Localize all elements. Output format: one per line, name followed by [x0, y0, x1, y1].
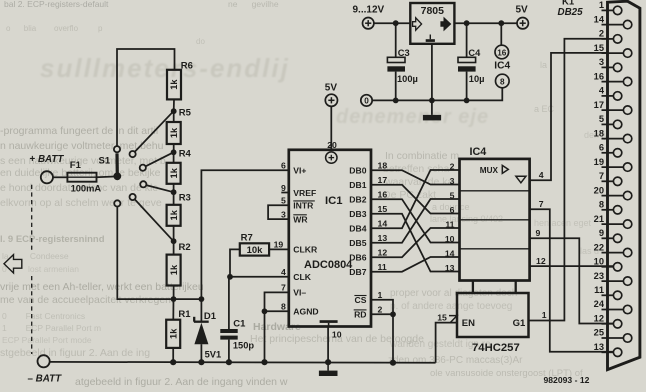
- svg-text:– BATT: – BATT: [28, 374, 63, 385]
- wire contact2 to R6/R5 node: [135, 111, 174, 152]
- wire R1 top: [172, 299, 174, 320]
- svg-text:25: 25: [594, 328, 604, 338]
- svg-text:16: 16: [378, 189, 388, 199]
- connector pin 11: [594, 285, 622, 299]
- svg-text:1k: 1k: [169, 167, 179, 178]
- wire pin8 to 0V rail: [372, 88, 502, 101]
- svg-text:20: 20: [594, 185, 604, 195]
- junction D1/ground bus: [198, 359, 204, 365]
- terminal 5V sub: [325, 94, 337, 106]
- S1 contact 3: [140, 165, 146, 171]
- svg-text:17: 17: [378, 175, 388, 185]
- wire EN pin 15 to ground: [436, 323, 457, 363]
- svg-text:9...12V: 9...12V: [353, 5, 385, 16]
- svg-text:982093 - 12: 982093 - 12: [544, 375, 590, 385]
- terminal +BATT: [41, 171, 53, 183]
- connector pin 5: [599, 114, 622, 129]
- svg-text:7: 7: [281, 283, 286, 293]
- wire IC4 pin 1 (G1) to DB25 pin 2: [529, 39, 608, 321]
- svg-text:MUX: MUX: [480, 166, 499, 175]
- connector pin 20: [594, 185, 632, 200]
- zener diode D1 5V1: [194, 299, 221, 362]
- connector pin 2: [599, 29, 622, 44]
- svg-text:9: 9: [536, 228, 541, 238]
- connector K1 DB25 shell: [608, 1, 640, 369]
- svg-text:15: 15: [437, 313, 447, 323]
- wire DB4 to IC4: [371, 170, 460, 228]
- node R2/R1 (VI+ node): [171, 296, 177, 302]
- svg-text:ADC0804: ADC0804: [304, 259, 353, 271]
- svg-text:15: 15: [594, 43, 604, 53]
- svg-text:13: 13: [378, 233, 388, 243]
- junction R1/ground bus: [170, 359, 176, 365]
- wire contact6 to R2/R1 node: [117, 206, 171, 299]
- svg-text:DB5: DB5: [349, 238, 366, 248]
- svg-text:WR: WR: [293, 214, 308, 224]
- svg-text:5: 5: [450, 191, 455, 201]
- svg-text:3: 3: [599, 57, 604, 67]
- svg-text:5: 5: [281, 196, 286, 206]
- svg-text:C4: C4: [468, 48, 481, 58]
- svg-text:15: 15: [378, 204, 388, 214]
- svg-text:5V: 5V: [325, 83, 338, 94]
- wire CS pin 1: [371, 300, 393, 315]
- wire AGND to ground bus: [264, 311, 266, 362]
- svg-text:5V1: 5V1: [205, 349, 222, 359]
- svg-text:R3: R3: [179, 193, 191, 204]
- svg-text:8: 8: [599, 200, 604, 210]
- svg-text:4: 4: [281, 267, 286, 277]
- svg-text:C1: C1: [233, 319, 246, 330]
- mux IC4 74HC257 body: [460, 159, 530, 281]
- junction AGND/ground bus: [261, 359, 267, 365]
- svg-text:150p: 150p: [233, 340, 255, 350]
- connector pin 13: [594, 342, 622, 356]
- terminal 0V: [361, 95, 372, 106]
- svg-text:10: 10: [332, 329, 342, 339]
- svg-text:5V: 5V: [516, 5, 529, 16]
- svg-text:18: 18: [594, 128, 604, 138]
- wire CLK node to IC1 pin 4: [230, 276, 289, 278]
- svg-text:1k: 1k: [169, 264, 179, 275]
- svg-text:+ BATT: + BATT: [30, 154, 65, 165]
- connector pin 24: [594, 299, 632, 313]
- wire IC4 pin 7 (2Y) to DB25 pin 13: [530, 209, 614, 351]
- node R4/R3: [171, 189, 177, 195]
- svg-text:F1: F1: [70, 160, 82, 171]
- svg-text:R1: R1: [178, 309, 191, 320]
- svg-text:19: 19: [594, 157, 604, 167]
- voltage regulator 7805: [410, 3, 454, 44]
- svg-text:18: 18: [378, 160, 388, 170]
- junction CS/RD: [390, 311, 396, 317]
- svg-text:13: 13: [445, 263, 455, 273]
- svg-text:IC4: IC4: [470, 146, 487, 158]
- connector pin 19: [594, 157, 632, 172]
- svg-text:0: 0: [364, 96, 369, 105]
- EN active-low wedge: [449, 316, 457, 323]
- wire ground bus: [50, 361, 436, 364]
- wire R2 bottom: [173, 286, 175, 300]
- wire node to D1: [174, 298, 202, 300]
- svg-text:2: 2: [599, 29, 604, 39]
- svg-text:14: 14: [378, 218, 388, 228]
- connector pin 6: [599, 143, 622, 158]
- wire DB6 to IC4: [371, 228, 460, 257]
- svg-text:12: 12: [378, 247, 388, 257]
- svg-text:R5: R5: [179, 107, 192, 118]
- connector pin 21: [594, 214, 632, 229]
- connector pin 18: [594, 128, 632, 143]
- svg-text:1k: 1k: [169, 209, 179, 220]
- wire 7805 out to 5V: [454, 22, 517, 24]
- capacitor C4 10u: [458, 23, 485, 100]
- svg-text:R2: R2: [179, 242, 191, 253]
- svg-text:9: 9: [599, 228, 604, 238]
- wire R3 bottom: [173, 226, 175, 241]
- wire DB5 to IC4: [371, 199, 460, 243]
- wire contact4 to R4/R3 node: [146, 185, 173, 192]
- wire 5V to IC4 pin 16: [500, 23, 502, 45]
- svg-text:1: 1: [378, 290, 383, 300]
- svg-text:11: 11: [445, 220, 454, 230]
- connector pin 9: [599, 228, 622, 243]
- connector pin 22: [594, 242, 632, 257]
- svg-text:VREF: VREF: [293, 188, 316, 198]
- node R5/R4: [171, 149, 177, 155]
- wire AGND pin 8: [265, 310, 289, 312]
- connector pin 10: [594, 257, 622, 271]
- svg-text:IC4: IC4: [494, 61, 510, 72]
- wire DB2 to IC4: [371, 199, 460, 242]
- svg-text:100mA: 100mA: [71, 184, 102, 194]
- junction IC4 supply: [498, 20, 504, 26]
- wire 7805 tab to ground: [431, 44, 433, 115]
- resistor R1 1k: [166, 309, 191, 348]
- IC4 control section: [457, 281, 529, 338]
- resistor R4 1k: [167, 149, 192, 184]
- junction C4 ground: [464, 98, 470, 104]
- connector pin 1: [599, 0, 622, 14]
- svg-text:8: 8: [281, 302, 286, 312]
- wire DB3 to IC4: [371, 214, 460, 272]
- svg-text:2: 2: [378, 304, 383, 314]
- wire R4 top: [173, 152, 175, 163]
- resistor R6 1k: [167, 61, 193, 100]
- svg-text:CLKR: CLKR: [293, 245, 318, 255]
- ground (main): [319, 362, 338, 376]
- svg-text:VI+: VI+: [293, 166, 306, 176]
- connector pin 15: [594, 43, 632, 57]
- svg-text:R7: R7: [241, 233, 253, 244]
- wire batt to fuse: [53, 176, 67, 178]
- capacitor C1 150p: [220, 277, 254, 362]
- wire pin 10 to ground bus: [327, 327, 329, 363]
- wire contact5 to R3/R2 node: [135, 199, 174, 241]
- connector pin 4: [599, 86, 622, 101]
- svg-text:100µ: 100µ: [397, 74, 418, 84]
- svg-text:G1: G1: [513, 318, 526, 329]
- connector pin 8: [599, 200, 622, 215]
- op IC1 ADC0804 body: [289, 150, 371, 327]
- svg-text:21: 21: [594, 214, 604, 224]
- svg-text:16: 16: [594, 71, 604, 81]
- S1 contact 5: [130, 194, 136, 200]
- svg-text:4: 4: [539, 170, 544, 180]
- svg-text:74HC257: 74HC257: [472, 342, 520, 354]
- svg-text:12: 12: [536, 256, 546, 266]
- junction C4: [464, 20, 470, 26]
- svg-text:1: 1: [542, 310, 547, 320]
- svg-text:IC1: IC1: [325, 195, 343, 207]
- battery dashed link + arrow: [4, 185, 32, 354]
- node R6/R5: [171, 108, 177, 114]
- wire DB0 to IC4: [371, 170, 460, 184]
- svg-text:7: 7: [539, 199, 544, 209]
- wire R2 top: [173, 241, 175, 254]
- IC4 supply pin 16: [495, 45, 509, 59]
- svg-text:10k: 10k: [247, 245, 264, 256]
- resistor R2 1k: [167, 242, 191, 286]
- svg-text:DB4: DB4: [349, 224, 366, 234]
- svg-text:23: 23: [594, 271, 604, 281]
- connector pin 25: [594, 328, 632, 342]
- wire contact1 to R6 top: [117, 49, 175, 146]
- svg-text:6: 6: [450, 205, 455, 215]
- svg-text:1: 1: [599, 0, 604, 10]
- junction VI-/AGND: [262, 308, 268, 314]
- wire R5 top: [173, 111, 175, 122]
- switch S1 pole: [113, 172, 121, 180]
- svg-text:7: 7: [599, 171, 604, 181]
- svg-text:11: 11: [378, 262, 387, 272]
- node R3/R2: [171, 238, 177, 244]
- S1 contact 6: [114, 200, 120, 206]
- svg-text:17: 17: [594, 100, 604, 110]
- resistor R7 10k: [240, 233, 269, 256]
- wire RD pin 2: [371, 313, 393, 315]
- junction C1/ground bus: [226, 359, 232, 365]
- svg-text:1k: 1k: [169, 79, 179, 90]
- wire R3 top: [173, 192, 175, 205]
- junction CLK node: [227, 274, 233, 280]
- junction D1 top: [199, 296, 205, 302]
- wire contact3 to R5/R4 node: [146, 152, 174, 166]
- svg-text:2: 2: [450, 162, 455, 172]
- svg-text:C3: C3: [398, 48, 410, 58]
- svg-text:EN: EN: [462, 318, 475, 329]
- svg-text:R6: R6: [181, 61, 193, 72]
- ground (supply): [423, 115, 441, 121]
- svg-text:INTR: INTR: [293, 201, 314, 211]
- S1 contact 1: [114, 146, 120, 152]
- capacitor C3 100u: [387, 23, 417, 100]
- S1 contact 2: [130, 151, 136, 157]
- svg-text:10µ: 10µ: [469, 74, 485, 84]
- svg-text:14: 14: [594, 14, 605, 24]
- svg-text:7805: 7805: [421, 5, 445, 17]
- wire DB7 to IC4: [371, 257, 460, 272]
- svg-text:5: 5: [599, 114, 604, 124]
- svg-text:DB2: DB2: [349, 195, 366, 205]
- svg-text:DB1: DB1: [349, 180, 366, 190]
- junction pin10/ground bus: [325, 359, 331, 365]
- svg-text:AGND: AGND: [293, 307, 318, 317]
- IC4 supply pin 8: [496, 74, 510, 88]
- resistor R3 1k: [167, 193, 191, 226]
- svg-text:4: 4: [599, 86, 605, 96]
- terminal 5V: [517, 18, 528, 29]
- svg-text:19: 19: [274, 240, 284, 250]
- terminal -BATT: [38, 355, 50, 367]
- svg-text:24: 24: [594, 299, 605, 309]
- svg-text:16: 16: [497, 48, 507, 57]
- svg-text:DB3: DB3: [349, 209, 366, 219]
- S1 contact 4: [140, 181, 146, 187]
- fuse F1 100mA: [67, 160, 101, 194]
- svg-text:S1: S1: [99, 156, 111, 167]
- svg-text:1k: 1k: [168, 328, 178, 339]
- svg-text:1k: 1k: [169, 127, 179, 138]
- wire R5 bottom: [173, 144, 175, 152]
- connector pin 7: [599, 171, 622, 186]
- connector pin 14: [594, 14, 632, 29]
- svg-text:22: 22: [594, 242, 604, 252]
- svg-text:10: 10: [445, 234, 455, 244]
- svg-text:10: 10: [594, 257, 604, 267]
- junction 7805 ground: [429, 98, 435, 104]
- svg-text:6: 6: [599, 143, 604, 153]
- svg-text:VI–: VI–: [293, 288, 306, 298]
- wire VI- to AGND: [265, 292, 289, 311]
- wire R7 to CLKR pin 19: [269, 248, 289, 250]
- svg-text:DB0: DB0: [349, 166, 366, 176]
- wire 5V sub to pin 20: [330, 107, 332, 150]
- svg-text:14: 14: [445, 249, 455, 259]
- svg-text:12: 12: [594, 314, 604, 324]
- svg-text:CS: CS: [355, 295, 367, 305]
- stub VREF pin 9: [281, 192, 289, 194]
- wire R7 to CLK node: [230, 249, 240, 276]
- svg-text:6: 6: [281, 161, 286, 171]
- svg-text:8: 8: [500, 77, 505, 86]
- junction C3/input: [393, 20, 399, 26]
- switch S1 arm: [115, 153, 119, 174]
- svg-text:9: 9: [281, 183, 286, 193]
- connector pin 3: [599, 57, 622, 72]
- resistor R5 1k: [167, 107, 192, 144]
- wire input to 7805: [374, 22, 410, 24]
- connector pin 17: [594, 100, 632, 115]
- junction CS-RD/ground bus: [390, 360, 396, 366]
- wire CS/RD to ground bus: [392, 314, 394, 362]
- svg-text:CLK: CLK: [293, 272, 311, 282]
- svg-text:D1: D1: [204, 311, 217, 322]
- connector pin 12: [594, 314, 622, 328]
- wire fuse to switch pole: [97, 176, 115, 179]
- wire R4 bottom: [173, 184, 175, 192]
- svg-text:RD: RD: [354, 310, 366, 320]
- wire IC4 pin 9 (3Y) to DB25 pin 12: [530, 238, 614, 323]
- svg-text:3: 3: [281, 209, 286, 219]
- svg-text:11: 11: [594, 285, 604, 295]
- terminal 9...12V input: [363, 18, 374, 29]
- wire R6 bottom: [173, 99, 175, 111]
- connector pin 23: [594, 271, 632, 286]
- svg-text:13: 13: [594, 342, 604, 352]
- svg-text:R4: R4: [179, 149, 192, 160]
- wire IC4 pin 4 (1Y) to DB25 pin 15: [530, 53, 608, 180]
- wire VI+ node to IC1 pin 6: [201, 170, 288, 299]
- junction C3 ground: [393, 98, 399, 104]
- svg-text:3: 3: [450, 176, 455, 186]
- connector pin 16: [594, 71, 632, 86]
- wire INTR-WR tie: [268, 205, 289, 219]
- wire DB1 to IC4: [371, 185, 460, 214]
- wire IC4 pin 12 (4Y) to DB25 pin 10: [530, 265, 614, 267]
- wire R1 bottom: [172, 348, 174, 362]
- svg-text:DB25: DB25: [558, 7, 584, 18]
